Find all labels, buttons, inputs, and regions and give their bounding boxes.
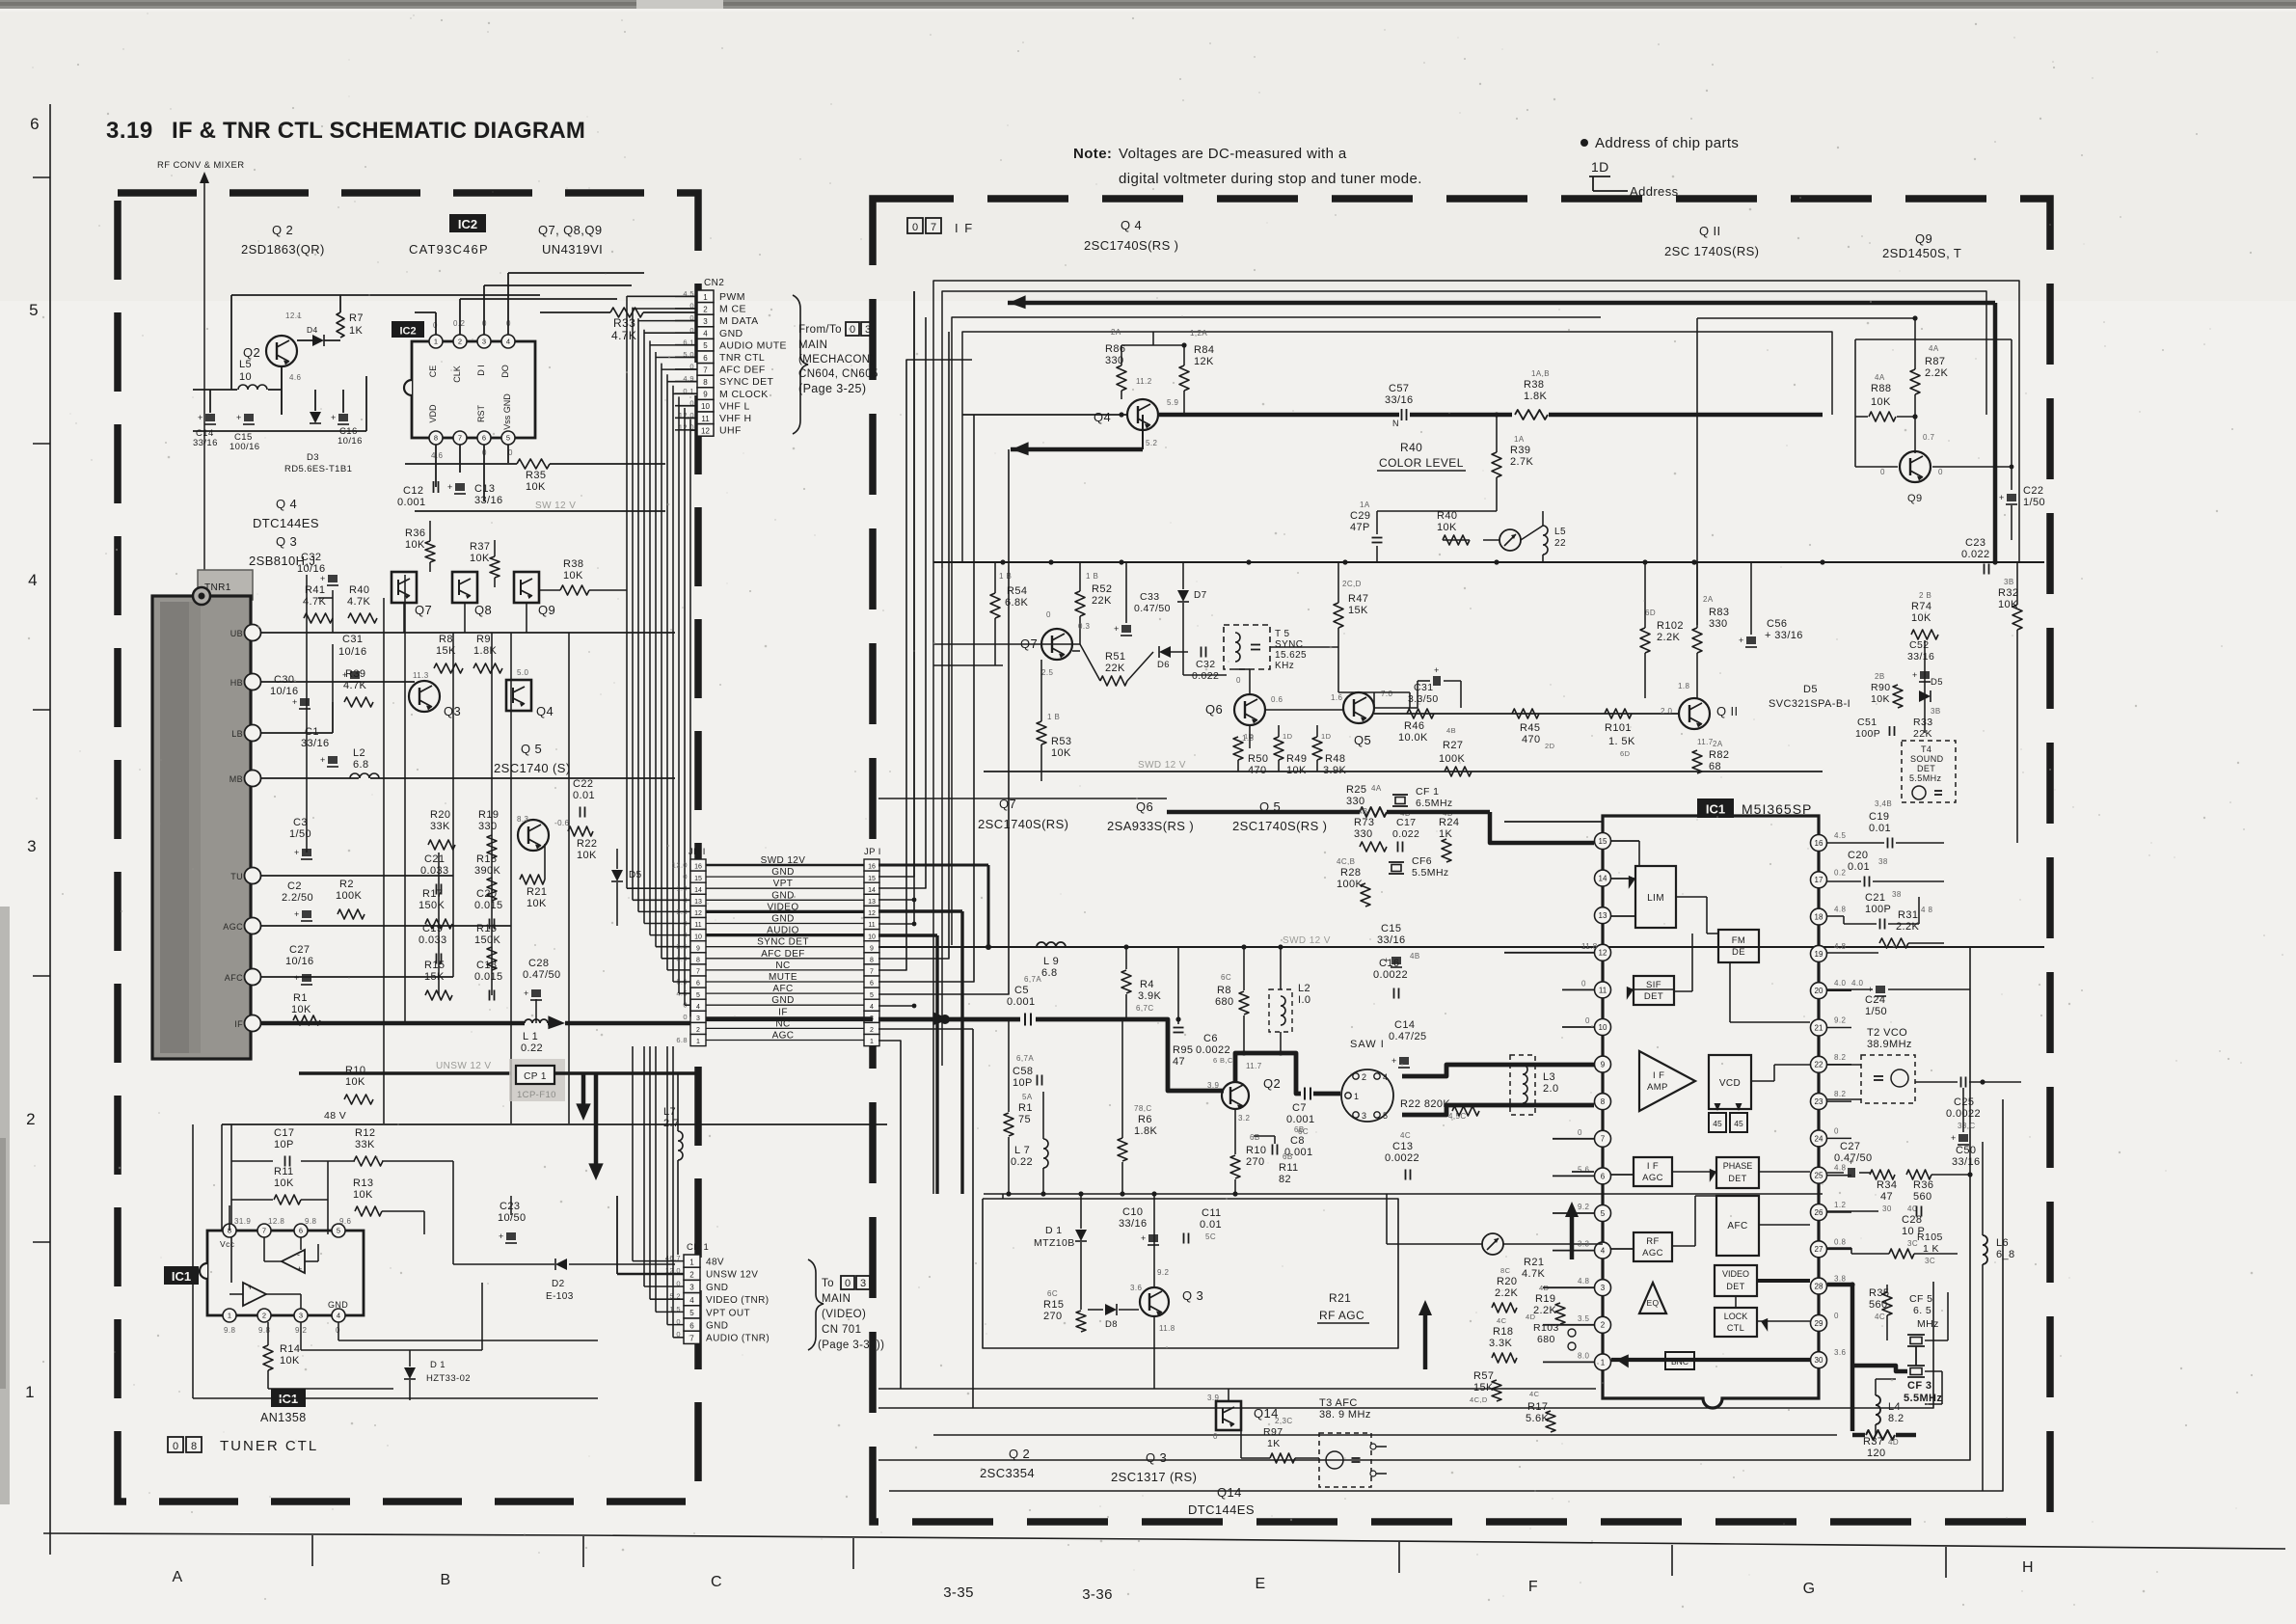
svg-text:0: 0: [1236, 676, 1241, 685]
svg-text:CAT93C46P: CAT93C46P: [409, 242, 489, 257]
svg-text:2: 2: [262, 1312, 266, 1320]
inductor L3 2.0 dashed: [1510, 1055, 1535, 1115]
svg-text:4.5: 4.5: [1834, 831, 1846, 840]
svg-text:75: 75: [1018, 1114, 1031, 1125]
svg-text:C12: C12: [403, 485, 423, 497]
svg-text:0.022: 0.022: [1192, 670, 1219, 682]
svg-text:2: 2: [458, 338, 462, 346]
svg-text:0.7: 0.7: [1923, 433, 1934, 442]
svg-text:MAIN: MAIN: [822, 1293, 851, 1305]
transformer T5 SYNC 15.625KHz: [1224, 625, 1270, 669]
svg-text:8: 8: [696, 957, 700, 963]
svg-text:GND: GND: [719, 328, 743, 339]
block LOCK CTL: [1715, 1308, 1757, 1337]
svg-text:1: 1: [434, 338, 438, 346]
svg-text:1 B: 1 B: [1086, 572, 1098, 581]
svg-text:D5: D5: [629, 870, 642, 880]
svg-text:R11: R11: [1279, 1162, 1299, 1174]
svg-text:Q4: Q4: [536, 704, 554, 718]
svg-text:C17: C17: [274, 1127, 294, 1139]
svg-text:11.7: 11.7: [1697, 738, 1714, 746]
Q14 and T3: [1216, 1401, 1241, 1430]
transistor Q7 (UN4319V1): [392, 572, 417, 603]
svg-text:C22: C22: [573, 778, 593, 790]
diode D8: [1105, 1304, 1117, 1315]
svg-text:4C: 4C: [1400, 1131, 1411, 1140]
svg-text:CF6: CF6: [1412, 855, 1432, 867]
svg-text:27: 27: [1815, 1245, 1823, 1254]
svg-text:R21: R21: [1524, 1257, 1544, 1268]
svg-text:5.9: 5.9: [1167, 398, 1178, 407]
svg-text:Q 4: Q 4: [1121, 218, 1142, 232]
ic IC2 pins top: [429, 335, 443, 348]
wire AFC row: [261, 976, 453, 978]
svg-text:D5: D5: [1803, 684, 1818, 695]
svg-text:4: 4: [1601, 1246, 1606, 1255]
svg-text:R19: R19: [478, 809, 499, 821]
svg-text:UNSW 12 V: UNSW 12 V: [436, 1061, 492, 1071]
svg-text:5.6: 5.6: [1578, 1165, 1589, 1174]
svg-text:2SD1450S, T: 2SD1450S, T: [1882, 246, 1961, 260]
svg-text:390K: 390K: [474, 865, 501, 877]
resistor R35 10K: [517, 459, 550, 469]
svg-text:33/16: 33/16: [193, 438, 218, 448]
svg-text:4: 4: [506, 338, 510, 346]
svg-text:33/16: 33/16: [301, 738, 330, 749]
misc long horizontals: [933, 664, 1003, 666]
svg-text:100K: 100K: [336, 890, 363, 902]
svg-text:L 7: L 7: [1014, 1145, 1030, 1156]
svg-text:8: 8: [191, 1441, 197, 1452]
svg-text:5: 5: [870, 992, 874, 999]
bottom ruler ticks: [311, 1535, 313, 1566]
svg-text:0.3: 0.3: [1078, 622, 1090, 631]
diode D1 HZT33-02: [404, 1367, 416, 1379]
svg-text:270: 270: [1043, 1311, 1063, 1322]
svg-text:CF 1: CF 1: [1416, 786, 1439, 798]
svg-text:3-35: 3-35: [943, 1584, 974, 1601]
ic left pin wires: [1543, 1286, 1594, 1288]
svg-text:6: 6: [703, 354, 708, 363]
svg-text:2.2K: 2.2K: [1495, 1287, 1518, 1299]
svg-text:I F: I F: [1653, 1070, 1664, 1081]
svg-text:Q6: Q6: [1205, 702, 1223, 717]
svg-text:3,4B: 3,4B: [1875, 799, 1892, 808]
svg-text:38: 38: [1892, 890, 1902, 899]
transistor Q2 saw driver: [1222, 1082, 1249, 1109]
svg-text:6.8: 6.8: [353, 759, 369, 771]
svg-text:SYNC: SYNC: [1275, 639, 1303, 650]
svg-text:R10: R10: [1246, 1145, 1266, 1156]
svg-text:4 8: 4 8: [1921, 906, 1932, 914]
svg-text:3: 3: [689, 1284, 694, 1292]
transistor Q9 right: [1900, 451, 1931, 482]
wire fan CN2 to bus: [627, 295, 697, 297]
block SIF DET: [1634, 976, 1674, 1005]
svg-text:3.3K: 3.3K: [1489, 1338, 1512, 1349]
svg-text:2A: 2A: [1703, 595, 1714, 604]
svg-text:2 B: 2 B: [1919, 591, 1931, 600]
svg-text:To: To: [822, 1278, 834, 1289]
svg-text:6.8: 6.8: [676, 1036, 688, 1044]
svg-text:+: +: [1912, 670, 1918, 680]
svg-text:R74: R74: [1911, 601, 1931, 612]
svg-text:1 K: 1 K: [1923, 1243, 1939, 1255]
mid bus right box: [933, 561, 2044, 563]
svg-text:4.0: 4.0: [1851, 979, 1863, 988]
svg-text:+: +: [1849, 1157, 1854, 1167]
svg-text:GND: GND: [706, 1321, 728, 1332]
svg-text:0.0022: 0.0022: [1373, 969, 1408, 981]
svg-text:21: 21: [1815, 1023, 1823, 1032]
svg-text:6C: 6C: [1221, 973, 1231, 982]
svg-text:5.2: 5.2: [1146, 439, 1157, 447]
svg-text:48 V: 48 V: [324, 1110, 346, 1122]
svg-text:R87: R87: [1925, 356, 1945, 367]
svg-text:8.2: 8.2: [1834, 1090, 1846, 1098]
svg-text:C13: C13: [474, 483, 495, 495]
svg-text:3: 3: [696, 1015, 700, 1022]
svg-text:13: 13: [694, 899, 702, 906]
svg-text:Q5: Q5: [1354, 733, 1371, 747]
svg-text:0.015: 0.015: [474, 900, 503, 911]
svg-text:5.6K: 5.6K: [1526, 1413, 1549, 1424]
svg-text:2SC1740S(RS): 2SC1740S(RS): [978, 817, 1068, 831]
svg-text:0: 0: [850, 324, 855, 336]
svg-text:30: 30: [1882, 1204, 1892, 1213]
svg-text:4A: 4A: [1929, 344, 1939, 353]
svg-text:C31: C31: [342, 634, 363, 645]
svg-text:1K: 1K: [1267, 1438, 1281, 1449]
svg-text:G: G: [1803, 1581, 1816, 1597]
thick unsw to CN1 pin2: [594, 1073, 599, 1128]
svg-text:11.7: 11.7: [1246, 1062, 1262, 1070]
svg-text:VIDEO: VIDEO: [767, 902, 798, 912]
svg-text:Q 2: Q 2: [1009, 1447, 1030, 1461]
svg-text:SWD 12 V: SWD 12 V: [1138, 760, 1186, 771]
inductor L5 10: [238, 385, 267, 390]
RF CONV arrow wire: [203, 179, 205, 598]
svg-text:R25: R25: [1346, 784, 1366, 796]
svg-text:5.5MHz: 5.5MHz: [1904, 1393, 1942, 1404]
svg-text:3: 3: [865, 324, 871, 336]
svg-text:2SC3354: 2SC3354: [980, 1466, 1035, 1480]
ic right pin wires: [1827, 989, 1851, 991]
svg-text:L2: L2: [353, 747, 365, 759]
svg-text:R8: R8: [439, 634, 453, 645]
TNR1 top mounting pin: [193, 587, 210, 605]
svg-text:4C,D: 4C,D: [1470, 1395, 1488, 1404]
svg-text:R34: R34: [1877, 1179, 1897, 1191]
svg-text:8: 8: [434, 434, 438, 443]
svg-text:VDD: VDD: [428, 404, 438, 423]
svg-text:DO: DO: [500, 365, 510, 378]
svg-text:SOUND: SOUND: [1910, 754, 1944, 764]
block IF AGC: [1634, 1157, 1672, 1186]
zener D1 MTZ10B: [1075, 1230, 1087, 1241]
svg-text:15K: 15K: [1473, 1382, 1494, 1394]
svg-text:KHz: KHz: [1275, 661, 1294, 671]
svg-text:R12: R12: [355, 1127, 375, 1139]
svg-text:3: 3: [482, 338, 486, 346]
jumper CP1: [516, 1066, 554, 1084]
block IF AMP triangle: [1639, 1051, 1695, 1111]
svg-text:5.5MHz: 5.5MHz: [1412, 867, 1449, 879]
svg-text:0.001: 0.001: [1286, 1114, 1315, 1125]
ic IC1 M51365SP body: [1603, 816, 1819, 1408]
svg-text:10P: 10P: [1013, 1077, 1033, 1089]
svg-text:GND: GND: [771, 914, 794, 925]
svg-text:RF: RF: [1646, 1236, 1659, 1247]
svg-text:D8: D8: [1105, 1319, 1118, 1330]
svg-text:0.6: 0.6: [1271, 695, 1283, 704]
svg-text:Q 3: Q 3: [1182, 1288, 1203, 1303]
svg-text:6: 6: [482, 434, 486, 443]
thick IF row across: [706, 1016, 873, 1021]
svg-text:digital voltmeter during stop: digital voltmeter during stop and tuner …: [1119, 171, 1422, 187]
svg-text:D 1: D 1: [1045, 1225, 1063, 1236]
svg-text:+: +: [292, 697, 298, 707]
svg-text:VIDEO: VIDEO: [1722, 1269, 1749, 1279]
svg-text:IC1: IC1: [172, 1269, 191, 1284]
svg-text:NC: NC: [775, 961, 790, 971]
svg-text:150K: 150K: [474, 934, 501, 946]
svg-text:270: 270: [1246, 1156, 1265, 1168]
svg-text:470: 470: [1522, 734, 1541, 745]
svg-text:SYNC DET: SYNC DET: [757, 937, 809, 948]
svg-text:11.2: 11.2: [1136, 377, 1152, 386]
svg-text:C21: C21: [424, 853, 445, 865]
svg-text:1.8K: 1.8K: [473, 645, 497, 657]
resistor R14 10K: [263, 1345, 273, 1370]
svg-text:C23: C23: [500, 1201, 520, 1212]
svg-text:2SD1863(QR): 2SD1863(QR): [241, 242, 325, 257]
svg-text:C31: C31: [1414, 682, 1433, 693]
svg-text:R101: R101: [1605, 722, 1632, 734]
svg-text:330: 330: [1346, 796, 1365, 807]
svg-text:33K: 33K: [430, 821, 450, 832]
svg-text:4A: 4A: [1875, 373, 1885, 382]
svg-text:3: 3: [1601, 1284, 1606, 1292]
svg-text:+: +: [294, 848, 300, 857]
svg-text:16: 16: [868, 864, 876, 871]
svg-text:I F: I F: [955, 221, 974, 235]
svg-text:12: 12: [868, 910, 876, 917]
svg-text:C14: C14: [1394, 1019, 1415, 1031]
resistor R7 1K: [337, 312, 344, 338]
Q5 emitter line: [1374, 713, 1679, 715]
svg-text:18: 18: [1815, 912, 1823, 921]
svg-text:6: 6: [696, 981, 700, 988]
svg-text:R97: R97: [1263, 1426, 1283, 1438]
svg-text:45: 45: [1734, 1119, 1743, 1128]
svg-text:7: 7: [1601, 1135, 1606, 1144]
svg-text:R51: R51: [1105, 651, 1125, 663]
svg-text:22K: 22K: [1092, 595, 1112, 607]
svg-text:3.9: 3.9: [1207, 1081, 1219, 1090]
svg-text:3B: 3B: [1931, 707, 1941, 716]
svg-text:CLK: CLK: [452, 365, 462, 383]
svg-text:100P: 100P: [1865, 904, 1891, 915]
svg-text:1/50: 1/50: [1865, 1006, 1887, 1017]
svg-text:12: 12: [694, 910, 702, 917]
inductor L5 22: [1543, 526, 1548, 555]
up arrow rf agc: [1570, 1213, 1575, 1259]
svg-text:R32: R32: [1998, 587, 2018, 599]
svg-text:RF AGC: RF AGC: [1319, 1309, 1364, 1322]
capacitor C16 10/16: [338, 414, 348, 421]
svg-text:6: 6: [870, 981, 874, 988]
diode D6: [1159, 646, 1171, 658]
svg-text:7: 7: [703, 365, 708, 374]
svg-text:5A: 5A: [1022, 1093, 1033, 1101]
filter CF1 6.5MHz: [1392, 794, 1408, 796]
svg-text:C56: C56: [1767, 618, 1787, 630]
svg-text:1/50: 1/50: [289, 828, 311, 840]
svg-text:Q8: Q8: [474, 603, 492, 617]
svg-text:DE: DE: [1732, 947, 1745, 958]
svg-text:2: 2: [26, 1110, 36, 1128]
svg-text:6B: 6B: [1294, 1125, 1305, 1134]
svg-text:GND: GND: [771, 890, 794, 901]
svg-text:25: 25: [1815, 1172, 1823, 1180]
svg-text:3: 3: [860, 1278, 866, 1289]
svg-text:5: 5: [689, 1309, 694, 1317]
svg-text:5: 5: [337, 1227, 340, 1235]
svg-text:DET: DET: [1644, 991, 1663, 1002]
svg-text:R20: R20: [1497, 1276, 1517, 1287]
svg-text:Q2: Q2: [1263, 1076, 1281, 1091]
svg-text:2SC1740S(RS ): 2SC1740S(RS ): [1232, 819, 1327, 833]
svg-text:22: 22: [1815, 1061, 1823, 1069]
svg-text:6B: 6B: [1283, 1152, 1293, 1161]
svg-text:CF 5: CF 5: [1909, 1293, 1932, 1305]
svg-text:SVC321SPA-B-I: SVC321SPA-B-I: [1769, 698, 1850, 710]
svg-text:7.0: 7.0: [1381, 690, 1392, 698]
svg-text:4: 4: [870, 1004, 874, 1011]
svg-text:2.7: 2.7: [663, 1118, 680, 1129]
blocks 45 45: [1709, 1113, 1726, 1132]
svg-text:2: 2: [1362, 1072, 1366, 1082]
svg-text:1: 1: [25, 1383, 35, 1401]
svg-text:IC2: IC2: [458, 217, 477, 231]
svg-text:R24: R24: [1439, 817, 1459, 828]
svg-text:10K: 10K: [291, 1004, 311, 1015]
svg-text:6. 5: 6. 5: [1913, 1305, 1931, 1316]
svg-text:+: +: [1739, 636, 1744, 645]
svg-text:CP 1: CP 1: [524, 1071, 547, 1082]
diode D2 E-103: [555, 1259, 567, 1270]
inductor L4 8.2: [1876, 1395, 1880, 1424]
svg-text:6C: 6C: [1047, 1289, 1058, 1298]
svg-text:Q 3: Q 3: [276, 534, 297, 549]
svg-text:IC2: IC2: [399, 325, 416, 337]
svg-text:R82: R82: [1709, 749, 1729, 761]
svg-text:10K: 10K: [353, 1189, 373, 1201]
svg-text:3.3/50: 3.3/50: [1408, 693, 1439, 705]
thick line into pin15: [1167, 810, 1360, 815]
svg-text:Q 2: Q 2: [272, 223, 293, 237]
svg-text:M CE: M CE: [719, 304, 746, 315]
svg-text:Voltages are DC-measured with: Voltages are DC-measured with a: [1119, 146, 1347, 162]
capacitor C15 100/16: [244, 414, 254, 421]
svg-text:IF & TNR CTL SCHEMATIC DIAGRAM: IF & TNR CTL SCHEMATIC DIAGRAM: [172, 118, 585, 144]
svg-text:D3: D3: [307, 452, 319, 463]
svg-text:C23: C23: [1965, 537, 1985, 549]
svg-text:R16: R16: [476, 923, 497, 934]
svg-text:10/16: 10/16: [270, 686, 299, 697]
svg-text:R15: R15: [424, 960, 445, 971]
svg-text:Note:: Note:: [1073, 146, 1112, 162]
svg-text:E: E: [1255, 1576, 1265, 1592]
svg-text:Q2: Q2: [243, 345, 260, 360]
transistor Q5 IF: [1343, 692, 1374, 723]
svg-text:5: 5: [506, 434, 510, 443]
svg-text:+: +: [297, 1264, 303, 1274]
svg-text:2,3C: 2,3C: [1275, 1417, 1293, 1425]
svg-text:15: 15: [1599, 837, 1607, 846]
svg-text:2.0: 2.0: [1661, 707, 1672, 716]
svg-text:C22: C22: [2023, 485, 2043, 497]
svg-text:R11: R11: [274, 1166, 294, 1177]
svg-text:10K: 10K: [1871, 396, 1891, 408]
svg-text:R38: R38: [563, 558, 583, 570]
svg-text:+: +: [1434, 665, 1440, 675]
svg-text:R2: R2: [339, 879, 354, 890]
svg-text:R27: R27: [1443, 740, 1463, 751]
wire TU row: [261, 875, 453, 877]
svg-text:6D: 6D: [1645, 609, 1656, 617]
svg-text:C30: C30: [274, 674, 294, 686]
svg-text:100P: 100P: [1855, 728, 1880, 740]
svg-text:0: 0: [845, 1278, 851, 1289]
top scan band: [0, 0, 2296, 9]
svg-text:1.8: 1.8: [1678, 682, 1689, 690]
svg-text:AGC: AGC: [1642, 1248, 1663, 1259]
svg-text:R90: R90: [1871, 682, 1890, 693]
svg-text:CN604, CN605: CN604, CN605: [798, 368, 878, 380]
svg-text:From/To: From/To: [798, 324, 842, 336]
svg-text:R13: R13: [353, 1177, 373, 1189]
svg-text:24: 24: [1815, 1134, 1823, 1143]
svg-text:0: 0: [912, 222, 918, 233]
inductor L1 0.22: [525, 1019, 548, 1023]
svg-text:9.2: 9.2: [1578, 1203, 1589, 1211]
svg-text:9.2: 9.2: [1834, 1016, 1846, 1025]
svg-text:+ 33/16: + 33/16: [1765, 630, 1803, 641]
svg-text:Q9: Q9: [1907, 493, 1922, 504]
svg-text:Q6: Q6: [1136, 799, 1153, 814]
svg-text:1.8K: 1.8K: [1134, 1125, 1157, 1137]
svg-text:16: 16: [1815, 839, 1823, 848]
wire Q2 collector: [297, 339, 312, 341]
zener D3 RD5.6ES-T1B1: [310, 412, 321, 423]
svg-text:6: 6: [1601, 1172, 1606, 1180]
svg-text:3C: 3C: [1925, 1257, 1935, 1265]
svg-text:Q14: Q14: [1217, 1485, 1242, 1500]
svg-text:3.8: 3.8: [1834, 1275, 1846, 1284]
svg-text:1D: 1D: [1283, 732, 1293, 741]
svg-text:GND: GND: [706, 1283, 728, 1293]
resistor R22 10K: [568, 826, 593, 836]
svg-text:3.2: 3.2: [1238, 1114, 1250, 1123]
svg-text:2: 2: [689, 1270, 694, 1279]
svg-text:TUNER CTL: TUNER CTL: [220, 1438, 318, 1454]
svg-text:8: 8: [1601, 1097, 1606, 1106]
thick IF AGC feed: [1572, 1171, 1594, 1173]
svg-text:F: F: [1528, 1579, 1538, 1595]
section label 08 TUNER CTL: [168, 1437, 183, 1452]
